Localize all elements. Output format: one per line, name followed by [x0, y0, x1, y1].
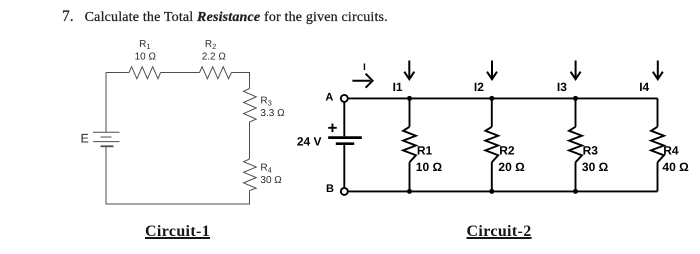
wire: bottom bus — [348, 190, 657, 192]
svg-text:R2: R2 — [499, 144, 515, 158]
wire: top bus — [348, 97, 657, 99]
svg-text:R3: R3 — [583, 144, 599, 158]
arrow I1 chevron — [404, 72, 414, 80]
svg-text:I3: I3 — [557, 80, 567, 94]
wire: top right segment — [232, 73, 250, 89]
svg-text:R4: R4 — [663, 144, 679, 158]
branch R1 wire lower — [409, 162, 411, 191]
junction dot top R3 — [573, 96, 578, 101]
svg-text:A: A — [325, 91, 333, 103]
arrow I4 shaft — [657, 61, 659, 78]
arrow I4 chevron — [653, 72, 663, 80]
wire: battery branch upper — [343, 102, 345, 136]
caption Circuit-2 — [467, 224, 532, 240]
branch R4 wire upper — [657, 98, 659, 126]
junction dot bottom R2 — [489, 189, 494, 194]
resistor R2 zigzag — [485, 127, 498, 163]
resistor R3 zigzag — [569, 127, 582, 163]
resistor R1 — [129, 67, 161, 79]
battery E plate short — [101, 136, 112, 138]
svg-text:20 Ω: 20 Ω — [498, 160, 525, 174]
branch R1 wire upper — [409, 98, 411, 126]
wire: right bottom + bottom wire + left lower — [106, 146, 250, 204]
wire: left upper — [105, 73, 107, 133]
arrow I1 shaft — [408, 61, 410, 78]
svg-text:I: I — [363, 62, 366, 73]
branch R3 wire upper — [575, 98, 577, 126]
junction dot top R1 — [407, 96, 412, 101]
svg-text:30 Ω: 30 Ω — [582, 160, 609, 174]
resistor R4 zigzag — [651, 127, 664, 163]
branch R3 wire lower — [575, 162, 577, 191]
arrow I3 chevron — [571, 72, 581, 80]
node A terminal circle — [341, 95, 348, 102]
wire: right middle segment — [249, 122, 251, 159]
arrow I3 shaft — [575, 61, 577, 78]
branch R2 wire upper — [491, 98, 493, 126]
wire: top middle segment — [161, 72, 200, 74]
svg-text:R1: R1 — [417, 144, 433, 158]
wire: top left segment — [106, 72, 129, 74]
wire: battery branch lower — [343, 145, 345, 188]
title: problem statement — [62, 8, 388, 26]
svg-text:+: + — [328, 118, 338, 137]
resistor R2 — [200, 67, 232, 79]
battery 24V long plate — [328, 136, 362, 139]
current arrow I chevron — [366, 74, 373, 88]
arrow I2 shaft — [491, 61, 493, 78]
branch R2 wire lower — [491, 162, 493, 191]
svg-text:24 V: 24 V — [297, 135, 322, 149]
svg-text:I4: I4 — [639, 80, 649, 94]
branch R4 wire lower — [657, 162, 659, 191]
junction dot bottom R1 — [407, 189, 412, 194]
svg-text:40 Ω: 40 Ω — [662, 160, 689, 174]
battery E plate long — [93, 141, 120, 143]
svg-text:B: B — [326, 183, 334, 195]
battery E plate long top — [93, 131, 120, 133]
junction dot bottom R3 — [573, 189, 578, 194]
current arrow I shaft — [352, 80, 370, 82]
battery E plate short thick — [101, 145, 114, 147]
battery 24V short plate — [336, 142, 354, 145]
svg-text:I2: I2 — [474, 80, 484, 94]
resistor R3 — [244, 89, 257, 123]
svg-text:I1: I1 — [393, 80, 403, 94]
svg-text:10 Ω: 10 Ω — [416, 160, 443, 174]
arrow I2 chevron — [487, 72, 497, 80]
junction dot top R2 — [489, 96, 494, 101]
resistor R1 zigzag — [403, 127, 416, 163]
resistor R4 — [244, 159, 257, 191]
caption Circuit-1 — [145, 224, 210, 240]
node B terminal circle — [341, 188, 348, 195]
